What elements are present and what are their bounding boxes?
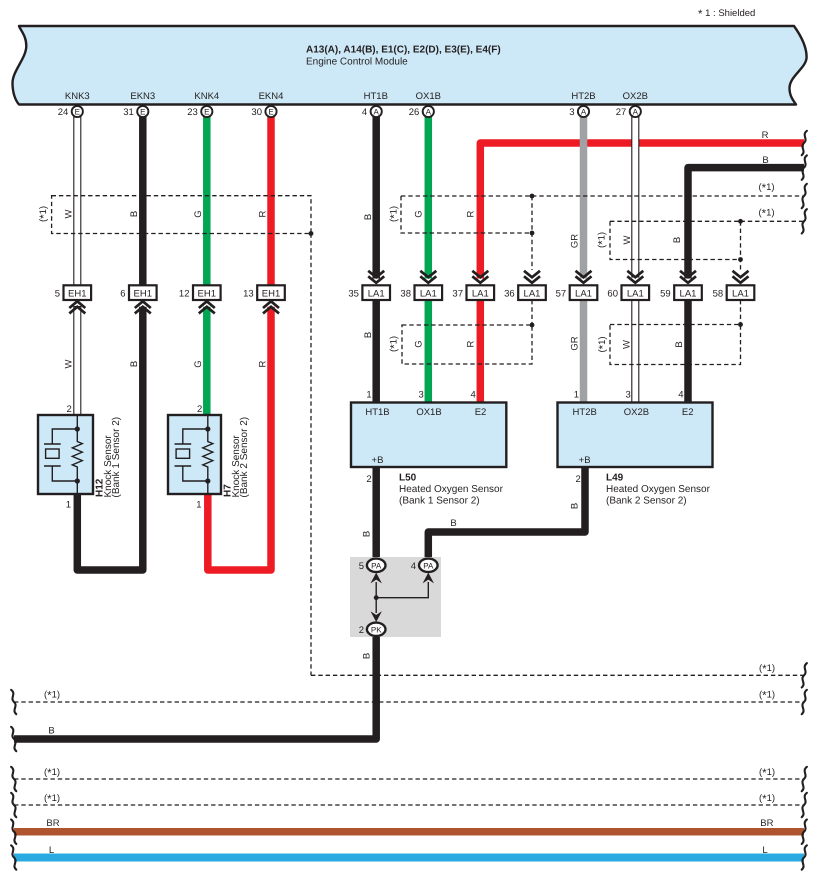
junction right shield top xyxy=(738,219,743,224)
svg-text:R: R xyxy=(466,210,477,217)
svg-text:(*1): (*1) xyxy=(759,690,775,703)
svg-text:B: B xyxy=(362,531,373,537)
wire W KNK3 white (outlined) ECM to EH1-5 xyxy=(74,117,81,286)
svg-text:BR: BR xyxy=(760,818,773,829)
svg-text:4: 4 xyxy=(678,390,683,401)
dashed line (*1) top right 1 xyxy=(532,195,804,197)
shield box left EH1 group xyxy=(52,196,311,234)
svg-text:G: G xyxy=(193,210,204,217)
svg-text:36: 36 xyxy=(504,289,515,300)
svg-text:BR: BR xyxy=(46,818,59,829)
svg-text:HT1B: HT1B xyxy=(365,407,389,418)
wire B L50 +B to PA5 xyxy=(372,465,380,559)
svg-text:EH1: EH1 xyxy=(68,289,86,300)
wire B HT1B ECM to LA1-35 xyxy=(372,116,380,279)
svg-text:L49: L49 xyxy=(606,473,624,484)
svg-text:59: 59 xyxy=(660,289,671,300)
svg-text:B: B xyxy=(362,653,373,659)
svg-text:(Bank 1 Sensor 2): (Bank 1 Sensor 2) xyxy=(111,417,122,498)
svg-text:57: 57 xyxy=(556,289,567,300)
svg-text:PA: PA xyxy=(371,562,382,571)
wire W EH1-5 to H12 pin2 xyxy=(74,307,81,416)
svg-text:KNK4: KNK4 xyxy=(194,91,219,102)
wire B LA1-35 to L50 pin1 xyxy=(372,299,380,404)
wire colour labels between connector row and sensors xyxy=(64,332,686,369)
resistor inside H12 xyxy=(72,429,82,494)
svg-text:PA: PA xyxy=(423,562,434,571)
junction left shield corner xyxy=(309,231,314,236)
shield box mid upper xyxy=(401,196,532,233)
svg-text:R: R xyxy=(762,130,769,141)
svg-text:E2: E2 xyxy=(682,407,694,418)
svg-text:13: 13 xyxy=(243,289,254,300)
wire BR bottom xyxy=(14,828,804,836)
connector EH1 pin 5 xyxy=(55,285,91,313)
svg-text:L: L xyxy=(49,845,54,856)
svg-text:E: E xyxy=(268,107,273,116)
svg-text:30: 30 xyxy=(251,107,262,118)
svg-text:LA1: LA1 xyxy=(627,289,644,300)
shield box right lower xyxy=(610,325,741,365)
svg-text:2: 2 xyxy=(359,625,364,636)
svg-text:(*1): (*1) xyxy=(44,793,60,806)
svg-text:LA1: LA1 xyxy=(732,289,749,300)
pin 30 E EKN4 xyxy=(265,106,276,117)
svg-text:LA1: LA1 xyxy=(472,289,489,300)
connector LA1 pin 35 xyxy=(348,271,390,300)
svg-text:(*1): (*1) xyxy=(44,690,60,703)
svg-text:A: A xyxy=(581,107,587,116)
connector EH1 pin 6 xyxy=(120,285,156,313)
dashed line (*1) full width xyxy=(14,701,804,703)
pin 26 A OX1B xyxy=(423,106,434,117)
wire B EKN3 ECM to EH1-6 xyxy=(139,116,147,286)
svg-text:60: 60 xyxy=(607,289,618,300)
svg-text:(*1): (*1) xyxy=(38,206,51,222)
svg-text:23: 23 xyxy=(187,107,198,118)
svg-text:B: B xyxy=(672,237,683,243)
dashed line (*1) top right 2 xyxy=(741,220,805,222)
wire G KNK4 ECM to EH1-12 xyxy=(203,116,211,286)
svg-text:4: 4 xyxy=(411,561,416,572)
dashed shield drop left x311 long xyxy=(310,234,312,676)
svg-text:EH1: EH1 xyxy=(134,289,152,300)
svg-text:Heated Oxygen Sensor: Heated Oxygen Sensor xyxy=(399,484,504,495)
svg-text:R: R xyxy=(466,340,477,347)
svg-text:Heated Oxygen Sensor: Heated Oxygen Sensor xyxy=(606,484,711,495)
junction right lower shield xyxy=(738,322,743,327)
pin 31 E EKN3 xyxy=(137,106,148,117)
wire L bottom xyxy=(14,854,804,862)
svg-text:(*1): (*1) xyxy=(759,793,775,806)
svg-text:GR: GR xyxy=(570,336,581,350)
svg-text:3: 3 xyxy=(569,107,574,118)
svg-text:(Bank 1 Sensor 2): (Bank 1 Sensor 2) xyxy=(399,495,480,506)
resistor inside H7 xyxy=(203,429,213,494)
wire GR LA1-57 to L49 pin1 xyxy=(580,299,588,404)
connector LA1 pin 57 xyxy=(556,271,598,300)
svg-text:OX2B: OX2B xyxy=(624,407,649,418)
svg-text:OX1B: OX1B xyxy=(416,91,441,102)
ECM A13 Engine Control Module xyxy=(13,26,807,105)
arrow into PA5 xyxy=(371,573,382,584)
wire W LA1-60 to L49 pin3 white outlined xyxy=(632,300,639,404)
svg-text:GR: GR xyxy=(570,234,581,248)
svg-text:B: B xyxy=(363,332,374,338)
break squiggles left edge xyxy=(11,690,16,870)
pin 4 A HT1B xyxy=(371,106,382,117)
junction mid shield top xyxy=(530,194,535,199)
svg-text:HT1B: HT1B xyxy=(364,91,388,102)
pin 23 E KNK4 xyxy=(201,106,212,117)
svg-text:B: B xyxy=(674,341,685,347)
svg-text:B: B xyxy=(363,214,374,220)
node junction lines xyxy=(376,582,428,613)
svg-text:LA1: LA1 xyxy=(420,289,437,300)
svg-text:L50: L50 xyxy=(399,473,417,484)
svg-text:37: 37 xyxy=(452,289,463,300)
svg-text:EKN3: EKN3 xyxy=(130,91,155,102)
svg-text:38: 38 xyxy=(400,289,411,300)
svg-text:2: 2 xyxy=(67,404,72,415)
svg-text:5: 5 xyxy=(359,561,364,572)
svg-text:(*1): (*1) xyxy=(758,182,774,195)
svg-text:PK: PK xyxy=(371,626,382,635)
connector EH1 pin 12 xyxy=(179,285,221,313)
svg-text:(*1): (*1) xyxy=(597,232,610,248)
svg-text:27: 27 xyxy=(616,107,627,118)
svg-text:E2: E2 xyxy=(475,407,487,418)
svg-text:35: 35 xyxy=(348,289,359,300)
svg-text:HT2B: HT2B xyxy=(571,91,595,102)
dashed shield drop right x740.5 xyxy=(740,221,742,270)
svg-text:1: 1 xyxy=(196,500,201,511)
piezo element H7 xyxy=(175,429,208,481)
svg-text:EKN4: EKN4 xyxy=(259,91,284,102)
oxygen sensor L50 xyxy=(351,390,506,507)
svg-text:2: 2 xyxy=(197,404,202,415)
dashed shield drop mid x532 xyxy=(531,196,533,270)
wire R E2 from right edge to LA1-37 xyxy=(480,143,804,279)
connector LA1 pin 36 dashed wire xyxy=(504,271,546,300)
svg-text:* 1 : Shielded: * 1 : Shielded xyxy=(698,8,755,21)
ECM pin circles xyxy=(58,106,641,118)
wire B EH1-6 down, left, up to H12 pin1 xyxy=(77,307,143,570)
wire W OX2B ECM to LA1-60 white outlined xyxy=(632,117,639,277)
svg-text:L: L xyxy=(762,845,767,856)
svg-text:31: 31 xyxy=(123,107,134,118)
junction mid lower shield xyxy=(530,323,535,328)
svg-text:4: 4 xyxy=(362,107,367,118)
svg-text:E: E xyxy=(204,107,209,116)
svg-text:LA1: LA1 xyxy=(575,289,592,300)
wire R EH1-13 down, left, up to H7 pin1 xyxy=(208,307,271,570)
wire B LA1-59 to L49 pin4 xyxy=(684,299,692,404)
wire B L49 +B down-left to PA4 xyxy=(428,465,585,559)
svg-text:EH1: EH1 xyxy=(262,289,280,300)
connector LA1 pin 58 dashed wire xyxy=(713,271,755,300)
svg-text:R: R xyxy=(258,360,269,367)
arrow into PK2 xyxy=(371,611,382,622)
wire colour labels upper shield row xyxy=(38,206,683,248)
svg-text:(Bank 2 Sensor 2): (Bank 2 Sensor 2) xyxy=(239,417,250,498)
shield box mid lower xyxy=(402,325,532,364)
svg-text:26: 26 xyxy=(409,107,420,118)
svg-text:B: B xyxy=(48,726,54,737)
splice PA 4 xyxy=(419,559,438,572)
svg-text:(*1): (*1) xyxy=(759,663,775,676)
svg-text:LA1: LA1 xyxy=(524,289,541,300)
svg-text:W: W xyxy=(622,235,633,244)
connector LA1 pin 59 xyxy=(660,271,702,300)
svg-text:24: 24 xyxy=(58,107,69,118)
wire R EKN4 ECM to EH1-13 xyxy=(267,116,275,286)
svg-text:5: 5 xyxy=(55,289,60,300)
svg-text:+B: +B xyxy=(372,455,384,466)
svg-text:A: A xyxy=(633,107,639,116)
svg-text:6: 6 xyxy=(120,289,125,300)
svg-text:1: 1 xyxy=(366,390,371,401)
svg-text:B: B xyxy=(570,503,581,509)
wire G LA1-38 to L50 pin3 xyxy=(425,299,433,404)
svg-text:(*1): (*1) xyxy=(758,208,774,221)
arrow into PA4 xyxy=(423,573,434,584)
connector LA1 pin 38 xyxy=(400,271,442,300)
wire colour labels lower verticals xyxy=(362,503,581,659)
break squiggles right edge xyxy=(802,131,807,870)
svg-text:1: 1 xyxy=(66,500,71,511)
svg-text:G: G xyxy=(414,340,425,347)
junction right shield bottom xyxy=(738,257,743,262)
svg-text:(*1): (*1) xyxy=(44,767,60,780)
connector LA1 pin 60 xyxy=(607,271,649,300)
splice PA 5 xyxy=(367,559,386,572)
svg-text:W: W xyxy=(64,209,75,218)
svg-text:(Bank 2 Sensor 2): (Bank 2 Sensor 2) xyxy=(606,495,687,506)
ground splice gray box xyxy=(350,557,441,637)
oxygen sensor L49 xyxy=(558,390,713,507)
svg-text:4: 4 xyxy=(471,390,476,401)
svg-text:G: G xyxy=(414,210,425,217)
knock sensor H7 xyxy=(168,404,250,511)
svg-text:58: 58 xyxy=(713,289,724,300)
svg-text:B: B xyxy=(762,155,768,166)
svg-text:W: W xyxy=(64,359,75,368)
connector EH1 pin 13 xyxy=(243,285,285,313)
svg-text:EH1: EH1 xyxy=(198,289,216,300)
pin 24 E KNK3 xyxy=(72,106,83,117)
wire B PK2 down to bottom horizontal xyxy=(14,636,376,739)
svg-text:B: B xyxy=(450,518,456,529)
wire B E2 from right edge to LA1-59 xyxy=(688,168,804,279)
splice PK 2 xyxy=(367,623,386,636)
piezo element H12 xyxy=(44,429,77,481)
dashed line (*1) lower 1 xyxy=(14,778,804,780)
wire GR HT2B ECM to LA1-57 xyxy=(580,116,588,279)
svg-text:OX1B: OX1B xyxy=(416,407,441,418)
dashed line (*1) lower 2 xyxy=(14,804,804,806)
svg-text:B: B xyxy=(129,211,140,217)
svg-text:HT2B: HT2B xyxy=(573,407,597,418)
svg-text:(*1): (*1) xyxy=(389,336,402,352)
svg-text:LA1: LA1 xyxy=(680,289,697,300)
svg-text:A: A xyxy=(426,107,432,116)
junction mid shield bottom xyxy=(530,231,535,236)
wire G EH1-12 to H7 pin2 xyxy=(203,307,211,416)
svg-text:A: A xyxy=(374,107,380,116)
svg-text:Engine Control Module: Engine Control Module xyxy=(306,57,408,68)
svg-text:(*1): (*1) xyxy=(597,336,610,352)
wire G OX1B ECM to LA1-38 xyxy=(425,116,433,279)
svg-text:12: 12 xyxy=(179,289,190,300)
wire R LA1-37 to L50 pin4 xyxy=(477,299,485,404)
dashed line (*1) mid from x311 to right xyxy=(311,674,804,676)
svg-text:(*1): (*1) xyxy=(389,206,402,222)
connector LA1 pin 37 xyxy=(452,271,494,300)
svg-text:E: E xyxy=(140,107,145,116)
svg-text:3: 3 xyxy=(419,390,424,401)
svg-text:R: R xyxy=(258,210,269,217)
svg-text:E: E xyxy=(75,107,80,116)
svg-text:2: 2 xyxy=(366,474,371,485)
svg-text:W: W xyxy=(622,340,633,349)
pin 3 A HT2B xyxy=(578,106,589,117)
svg-text:OX2B: OX2B xyxy=(623,91,648,102)
svg-text:B: B xyxy=(129,361,140,367)
svg-text:LA1: LA1 xyxy=(368,289,385,300)
svg-text:A13(A), A14(B), E1(C), E2(D),: A13(A), A14(B), E1(C), E2(D), E3(E), E4(… xyxy=(306,45,501,56)
knock sensor H12 xyxy=(38,404,122,511)
svg-text:3: 3 xyxy=(626,390,631,401)
svg-text:KNK3: KNK3 xyxy=(65,91,90,102)
shield box right upper xyxy=(610,221,741,259)
pin 27 A OX2B xyxy=(630,106,641,117)
svg-text:(*1): (*1) xyxy=(759,767,775,780)
svg-text:1: 1 xyxy=(574,390,579,401)
svg-text:2: 2 xyxy=(576,474,581,485)
svg-text:+B: +B xyxy=(579,455,591,466)
svg-text:G: G xyxy=(193,360,204,367)
